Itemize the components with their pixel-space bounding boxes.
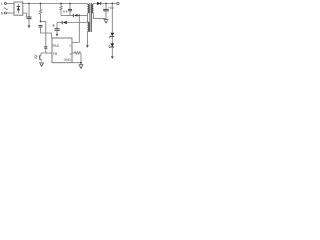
output rail <box>101 3 117 5</box>
capacitor C6 output <box>103 4 109 19</box>
photo arrows <box>34 55 38 60</box>
wire tap to pin D <box>72 15 79 42</box>
wire IC gnd pin <box>72 62 81 64</box>
wire FB node <box>41 52 52 54</box>
LED photo arrows <box>108 45 111 48</box>
svg-text:FB: FB <box>53 52 58 56</box>
arrow into IC <box>56 34 58 37</box>
svg-text:N: N <box>1 11 4 15</box>
wire secondary return <box>93 13 106 19</box>
diode D1 clamp <box>62 21 87 24</box>
wire opto collector <box>40 53 42 56</box>
capacitor C2 <box>68 4 72 16</box>
resistor R2 <box>60 4 62 16</box>
wire FB branch vertical <box>45 22 47 47</box>
bridge rectifier box <box>14 2 23 15</box>
resistor R1 <box>39 4 41 22</box>
node dot zener branch <box>111 3 113 5</box>
AC source symbol <box>4 8 8 10</box>
top DC rail <box>23 3 88 5</box>
arrow output return <box>111 56 114 59</box>
terminal N <box>5 12 7 14</box>
wire zener branch <box>111 4 113 33</box>
terminal L <box>5 3 7 5</box>
IC U1 box <box>52 38 72 63</box>
capacitor C5 drain <box>55 29 60 34</box>
wire secondary top <box>93 3 97 6</box>
diode D2 tap <box>73 14 87 17</box>
svg-text:L: L <box>1 2 3 6</box>
node dot R2 <box>60 3 62 5</box>
node dot ground <box>80 62 82 64</box>
zener D4 <box>109 33 114 44</box>
arrow bias return <box>86 45 89 48</box>
node dot tap <box>78 15 80 17</box>
ground primary <box>79 63 84 69</box>
terminal Vo <box>117 2 119 4</box>
node dot clamp R <box>40 3 42 5</box>
wire tap line <box>61 14 73 16</box>
wire node to C4 branch <box>41 21 47 23</box>
ground opto <box>39 63 44 66</box>
wire source to ground <box>80 53 82 63</box>
transformer T1 primary upper <box>88 4 89 13</box>
wire primary link <box>87 4 89 23</box>
wire clamp diode net <box>57 22 62 24</box>
diode D3 output <box>97 2 101 5</box>
transformer core <box>90 3 92 32</box>
optocoupler LED D5 <box>110 43 114 56</box>
resistor R3 source <box>72 52 81 55</box>
wire L to bridge <box>7 3 15 5</box>
svg-text:S: S <box>69 52 71 56</box>
capacitor C4 feedback <box>44 47 47 53</box>
optocoupler phototransistor Q1 <box>40 55 42 61</box>
wire N to bridge <box>7 12 15 14</box>
node dot R1-C3 <box>40 21 42 23</box>
wire clamp bottom to IC <box>41 33 52 38</box>
wire drain top <box>56 23 58 29</box>
transformer T1 secondary <box>92 4 93 13</box>
bridge diode <box>17 4 21 14</box>
wire bias return <box>86 32 88 46</box>
ground secondary <box>104 20 109 24</box>
label C5 <box>53 11 68 27</box>
svg-text:PAD: PAD <box>53 44 60 48</box>
node dot C2 <box>69 3 71 5</box>
wire bridge negative stub <box>23 13 27 17</box>
node dot bulk cap <box>28 3 30 5</box>
node dot output cap <box>105 3 107 5</box>
capacitor C3 <box>39 25 43 33</box>
capacitor C1 bulk <box>27 4 32 29</box>
transformer T1 bias winding <box>88 22 90 32</box>
svg-text:GND: GND <box>64 58 72 62</box>
svg-text:+Vo: +Vo <box>108 6 114 10</box>
